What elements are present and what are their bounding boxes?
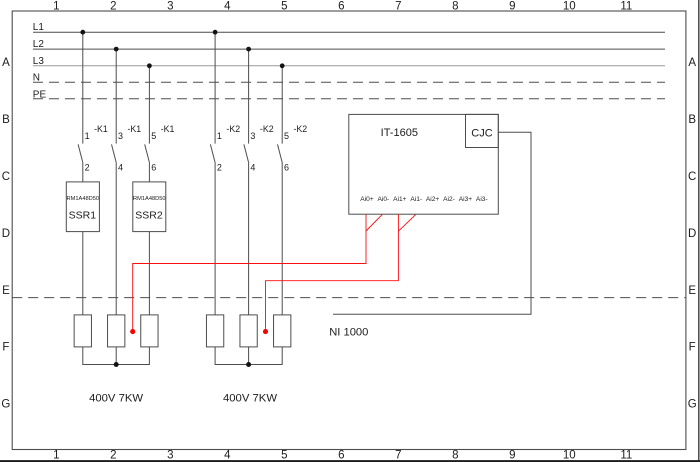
svg-text:5: 5 [151,131,156,141]
svg-text:11: 11 [620,450,632,462]
svg-text:L3: L3 [33,56,45,67]
svg-text:7: 7 [395,1,401,13]
svg-text:2: 2 [110,1,116,13]
svg-text:PE: PE [33,89,47,100]
svg-text:6: 6 [284,163,289,173]
svg-text:3: 3 [250,131,255,141]
svg-text:RM1A48D50: RM1A48D50 [133,196,166,202]
svg-text:5: 5 [281,1,287,13]
svg-text:B: B [688,114,696,126]
svg-text:Ai2+: Ai2+ [426,196,440,203]
svg-text:6: 6 [338,450,344,462]
svg-text:A: A [2,57,10,69]
svg-text:D: D [688,228,696,240]
svg-text:-K2: -K2 [294,124,308,134]
svg-text:1: 1 [53,1,59,13]
svg-text:9: 9 [509,450,515,462]
svg-text:CJC: CJC [471,127,492,139]
svg-text:Ai0-: Ai0- [378,196,390,203]
svg-text:B: B [2,114,10,126]
svg-text:-K1: -K1 [161,124,175,134]
svg-text:Ai1+: Ai1+ [393,196,407,203]
svg-text:Ai2-: Ai2- [443,196,455,203]
svg-text:RM1A48D50: RM1A48D50 [67,196,100,202]
svg-text:E: E [688,285,696,297]
svg-text:6: 6 [151,163,156,173]
svg-text:-K2: -K2 [260,124,274,134]
svg-text:Ai1-: Ai1- [410,196,422,203]
svg-text:C: C [688,171,696,183]
svg-text:E: E [2,285,10,297]
svg-text:SSR2: SSR2 [135,210,163,222]
svg-text:L1: L1 [33,22,45,33]
svg-text:G: G [688,399,697,411]
svg-text:3: 3 [167,450,173,462]
svg-text:A: A [688,57,696,69]
svg-text:9: 9 [509,1,515,13]
svg-text:400V 7KW: 400V 7KW [223,393,277,405]
svg-text:11: 11 [620,1,632,13]
svg-text:F: F [2,342,9,354]
svg-text:8: 8 [452,450,458,462]
svg-text:10: 10 [563,1,576,13]
svg-text:N: N [33,73,40,84]
svg-text:4: 4 [250,163,255,173]
svg-text:F: F [689,342,696,354]
svg-text:L2: L2 [33,39,45,50]
svg-text:-K2: -K2 [226,124,240,134]
svg-text:C: C [2,171,10,183]
svg-text:SSR1: SSR1 [69,210,97,222]
svg-text:7: 7 [395,450,401,462]
svg-text:4: 4 [224,1,231,13]
svg-text:2: 2 [85,163,90,173]
svg-text:3: 3 [167,1,173,13]
svg-text:6: 6 [338,1,344,13]
svg-text:Ai3-: Ai3- [476,196,488,203]
svg-text:Ai3+: Ai3+ [459,196,473,203]
svg-text:1: 1 [85,131,90,141]
svg-text:-K1: -K1 [94,124,108,134]
svg-text:IT-1605: IT-1605 [381,127,418,139]
svg-text:2: 2 [217,163,222,173]
svg-text:-K1: -K1 [128,124,142,134]
svg-text:2: 2 [110,450,116,462]
svg-text:10: 10 [563,450,576,462]
svg-text:NI 1000: NI 1000 [329,326,368,338]
svg-text:Ai0+: Ai0+ [360,196,374,203]
svg-text:4: 4 [118,163,123,173]
svg-text:400V 7KW: 400V 7KW [89,393,143,405]
svg-text:4: 4 [224,450,231,462]
svg-text:1: 1 [217,131,222,141]
svg-text:5: 5 [284,131,289,141]
svg-text:G: G [1,399,10,411]
svg-text:8: 8 [452,1,458,13]
svg-text:D: D [2,228,10,240]
svg-text:1: 1 [53,450,59,462]
svg-text:3: 3 [118,131,123,141]
svg-text:5: 5 [281,450,287,462]
